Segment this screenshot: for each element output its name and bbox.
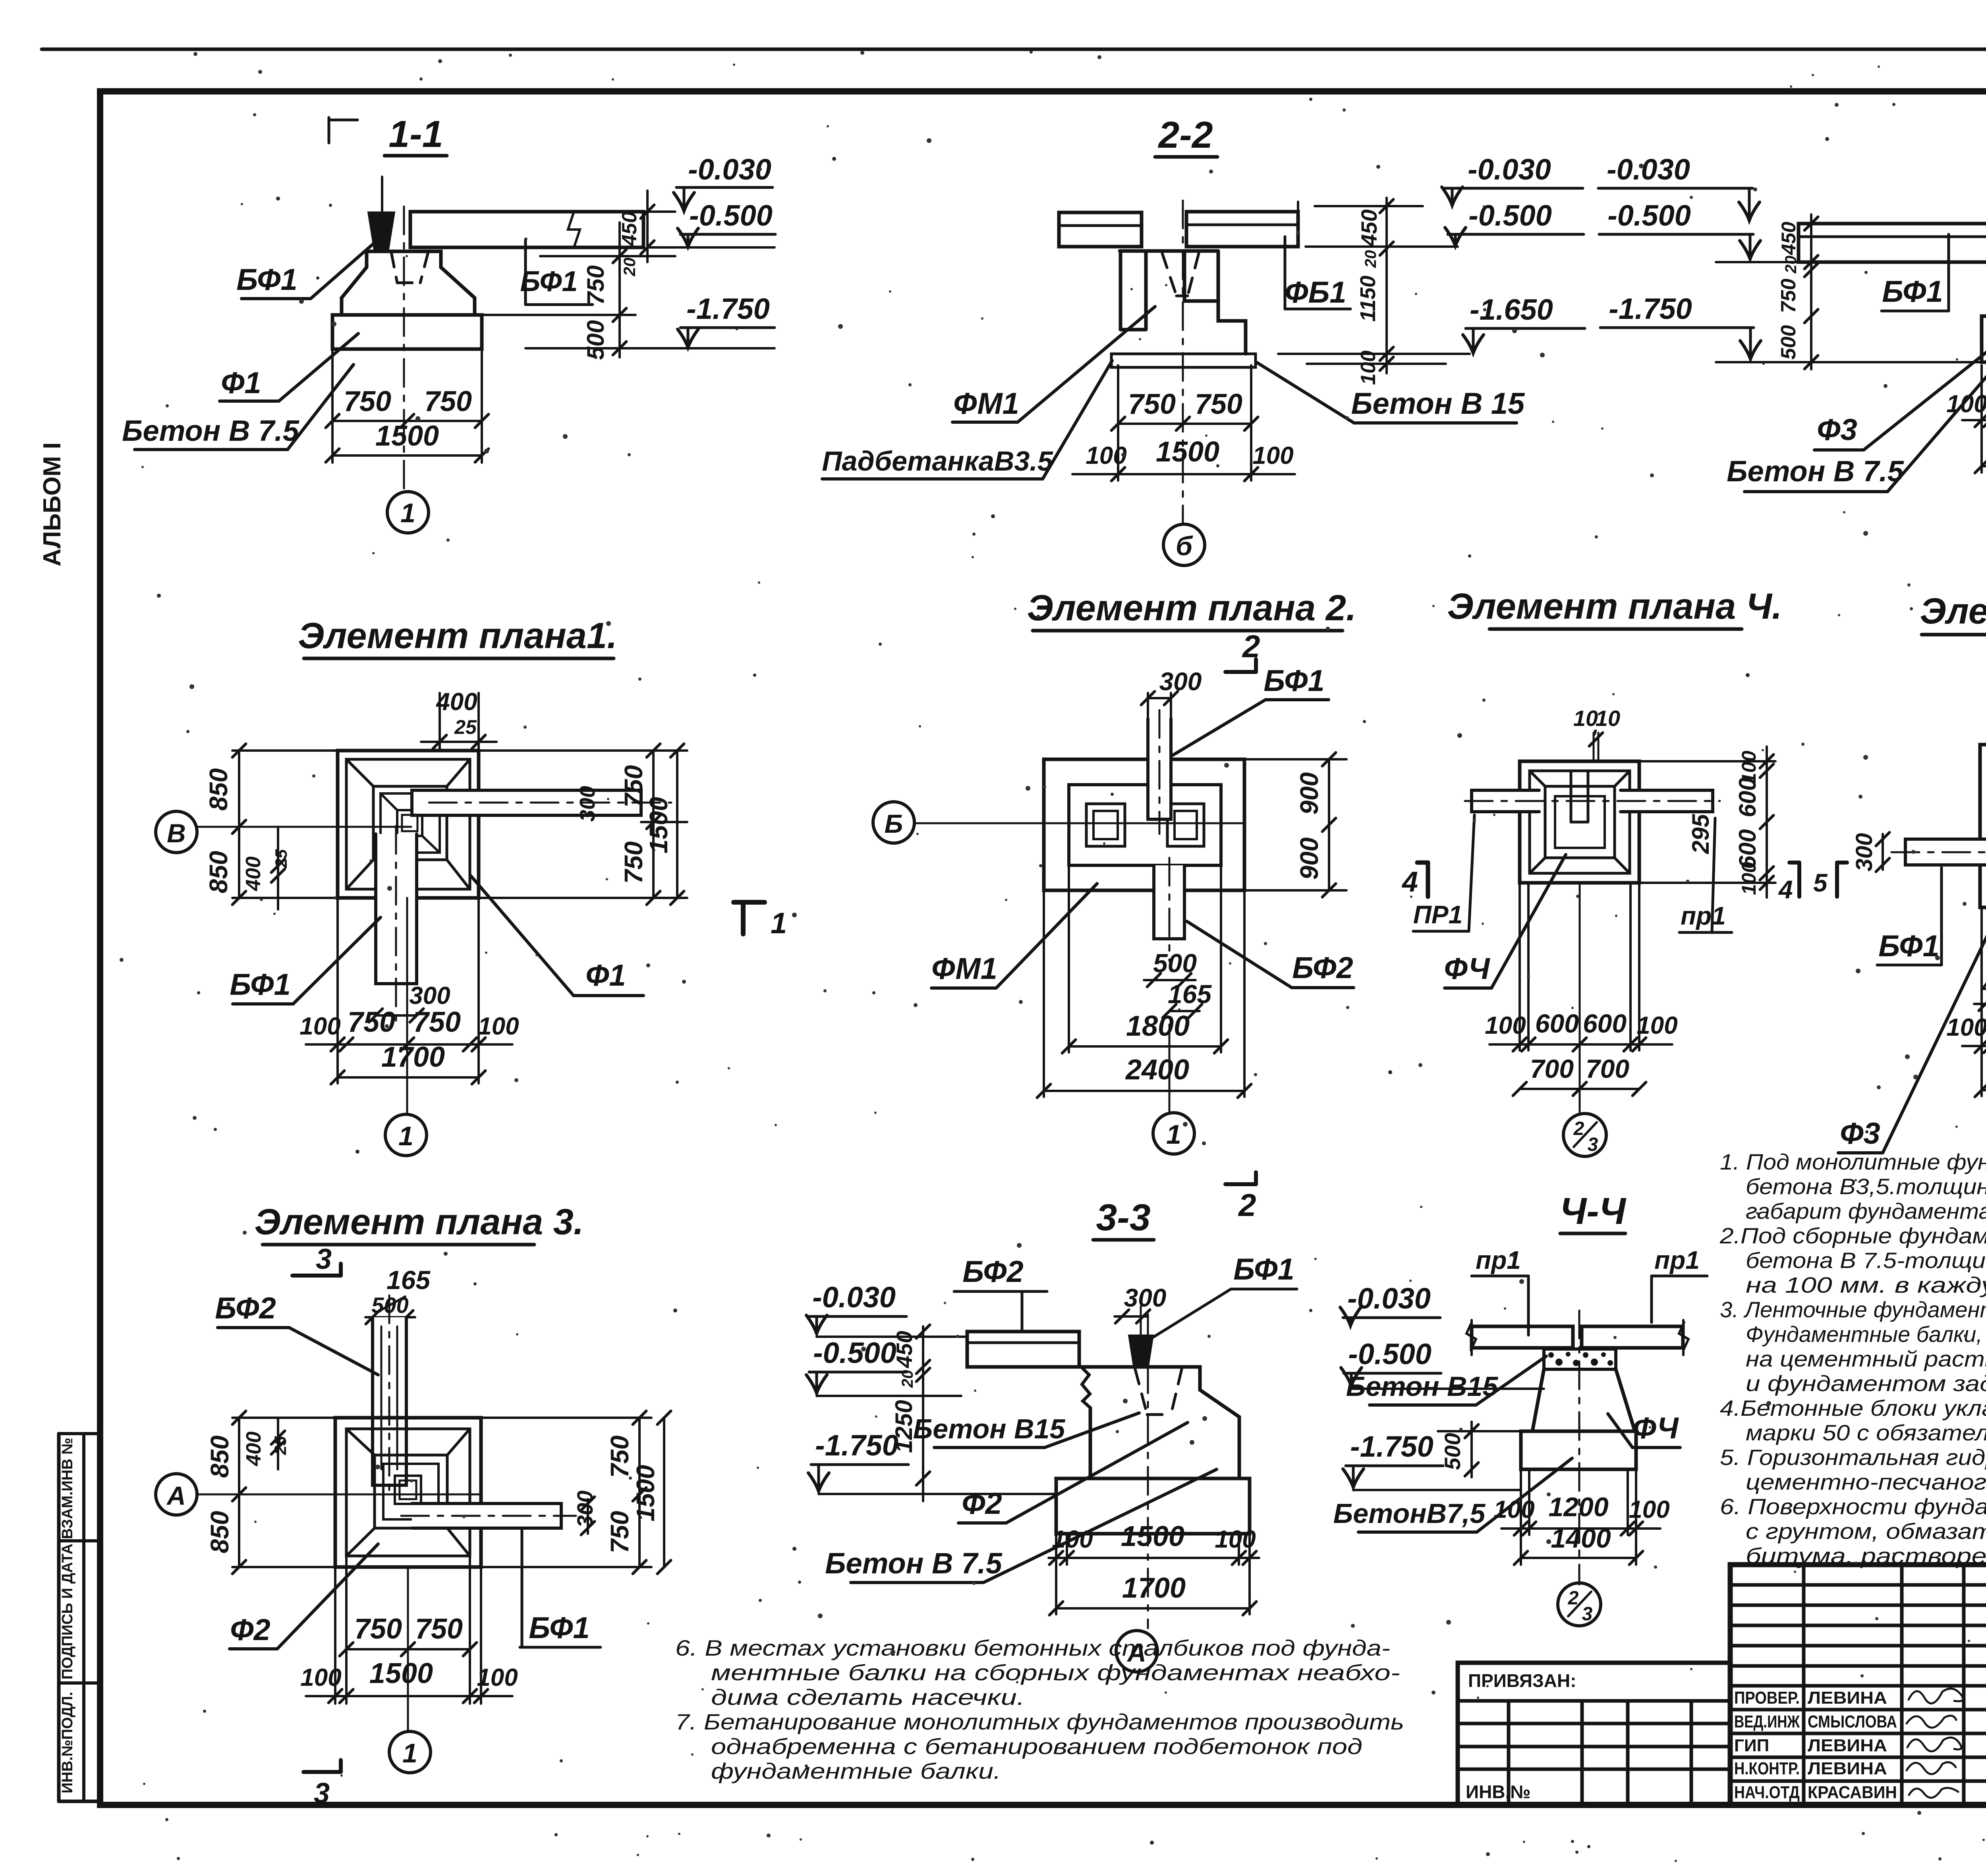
svg-text:300: 300 — [1159, 667, 1202, 696]
svg-text:ПадбетанкаВ3.5: ПадбетанкаВ3.5 — [822, 446, 1053, 477]
svg-text:-0.030: -0.030 — [1468, 153, 1551, 186]
svg-text:1-1: 1-1 — [388, 113, 443, 155]
svg-text:100: 100 — [1086, 442, 1126, 469]
svg-text:1700: 1700 — [381, 1041, 445, 1073]
svg-text:Ф2: Ф2 — [962, 1487, 1002, 1521]
svg-text:3. Ленточные фундаменты уложит: 3. Ленточные фундаменты уложить на песча… — [1720, 1297, 1986, 1322]
svg-text:БФ1: БФ1 — [520, 266, 578, 297]
svg-text:100: 100 — [1636, 1012, 1677, 1039]
svg-text:750: 750 — [1195, 388, 1242, 420]
svg-text:750: 750 — [1128, 388, 1176, 420]
svg-text:7. Бетанирование монолитных фу: 7. Бетанирование монолитных фундаментов … — [675, 1709, 1404, 1734]
svg-text:300: 300 — [409, 982, 450, 1009]
svg-text:Ф1: Ф1 — [221, 366, 261, 400]
svg-text:АЛЬБОМ I: АЛЬБОМ I — [39, 442, 66, 566]
svg-text:500: 500 — [1440, 1433, 1465, 1470]
svg-text:-0.500: -0.500 — [1348, 1338, 1432, 1370]
svg-text:Элемент плана Ч.: Элемент плана Ч. — [1447, 586, 1782, 627]
svg-text:ФМ1: ФМ1 — [931, 952, 997, 986]
svg-text:300: 300 — [576, 786, 599, 822]
svg-text:900: 900 — [1295, 772, 1323, 815]
svg-text:100: 100 — [1252, 442, 1293, 469]
svg-text:СМЫСЛОВА: СМЫСЛОВА — [1808, 1712, 1897, 1731]
svg-text:20: 20 — [899, 1370, 916, 1388]
svg-text:Н.КОНТР.: Н.КОНТР. — [1734, 1759, 1800, 1778]
svg-text:-1.750: -1.750 — [1350, 1430, 1433, 1463]
svg-text:5: 5 — [1813, 869, 1828, 897]
svg-text:750: 750 — [582, 265, 609, 305]
svg-text:ФЧ: ФЧ — [1632, 1411, 1679, 1445]
svg-text:бетона В3,5.толщиной 100мм, кр: бетона В3,5.толщиной 100мм, кроме оговор… — [1746, 1174, 1986, 1199]
svg-text:Бетон В 7.5: Бетон В 7.5 — [825, 1547, 1003, 1580]
svg-text:3: 3 — [1582, 1604, 1593, 1625]
svg-text:300: 300 — [1851, 833, 1877, 872]
svg-text:1: 1 — [402, 1738, 417, 1768]
svg-text:-0.500: -0.500 — [1468, 199, 1552, 232]
svg-text:750: 750 — [344, 386, 391, 417]
svg-text:100: 100 — [1357, 351, 1380, 385]
svg-text:-1.750: -1.750 — [1609, 292, 1692, 325]
svg-text:пр1: пр1 — [1476, 1246, 1521, 1274]
svg-text:1500: 1500 — [644, 797, 673, 853]
svg-text:бетона В 7.5-толщиной 500, пре: бетона В 7.5-толщиной 500, превышающая г… — [1746, 1248, 1986, 1273]
svg-text:КРАСАВИН: КРАСАВИН — [1808, 1783, 1897, 1802]
svg-text:6. В местах установки бетонных: 6. В местах установки бетонных сталбиков… — [675, 1635, 1390, 1660]
svg-text:ГИП: ГИП — [1734, 1736, 1769, 1755]
svg-text:ПРИВЯЗАН:: ПРИВЯЗАН: — [1468, 1670, 1576, 1691]
svg-text:Бетон В15: Бетон В15 — [1346, 1371, 1499, 1402]
svg-text:на цементный раствор марки 200: на цементный раствор марки 200. Зазоры м… — [1746, 1346, 1986, 1371]
svg-text:2-2: 2-2 — [1157, 114, 1213, 156]
svg-text:100: 100 — [1946, 1014, 1986, 1041]
svg-text:500: 500 — [582, 320, 609, 360]
svg-text:на 100 мм. в каждую сторону.: на 100 мм. в каждую сторону. — [1746, 1272, 1986, 1297]
svg-text:1: 1 — [400, 498, 415, 528]
svg-text:100: 100 — [300, 1664, 341, 1691]
svg-text:БФ1: БФ1 — [529, 1611, 589, 1645]
svg-text:Элемент плана1.: Элемент плана1. — [298, 616, 617, 656]
svg-text:700: 700 — [1530, 1054, 1574, 1083]
svg-text:Б: Б — [885, 809, 903, 838]
svg-text:-1.650: -1.650 — [1470, 293, 1553, 326]
svg-text:100: 100 — [1493, 1496, 1534, 1523]
svg-text:-0.030: -0.030 — [812, 1281, 896, 1314]
svg-text:100: 100 — [1485, 1012, 1526, 1039]
svg-text:100: 100 — [1738, 862, 1760, 895]
svg-text:пр1: пр1 — [1681, 901, 1726, 930]
svg-text:1. Под монолитные фундаменты в: 1. Под монолитные фундаменты выполнить б… — [1720, 1149, 1986, 1174]
svg-text:295: 295 — [1687, 813, 1714, 854]
svg-text:2400: 2400 — [1125, 1054, 1189, 1086]
svg-text:Ч-Ч: Ч-Ч — [1560, 1190, 1627, 1232]
svg-text:450: 450 — [1356, 209, 1381, 247]
svg-text:25: 25 — [454, 716, 477, 738]
svg-text:БФ2: БФ2 — [215, 1291, 276, 1325]
svg-text:б: б — [1176, 531, 1193, 561]
svg-text:БФ1: БФ1 — [1233, 1253, 1294, 1286]
svg-text:850: 850 — [205, 1511, 234, 1554]
svg-text:750: 750 — [605, 1436, 634, 1478]
svg-text:600: 600 — [1535, 1009, 1579, 1038]
svg-text:Элемент плана 2.: Элемент плана 2. — [1027, 588, 1356, 628]
svg-text:750: 750 — [619, 841, 648, 884]
svg-text:600: 600 — [1734, 778, 1761, 817]
svg-text:Бетон В 15: Бетон В 15 — [1351, 387, 1525, 421]
svg-text:Фундаментные балки, диафрагмы: Фундаментные балки, диафрагмы жесткости,… — [1746, 1322, 1986, 1347]
svg-text:450: 450 — [618, 212, 641, 247]
svg-text:750: 750 — [354, 1613, 402, 1645]
svg-text:Ф1: Ф1 — [585, 959, 626, 992]
svg-text:400: 400 — [435, 688, 477, 716]
svg-text:Элемент плана 5.: Элемент плана 5. — [1920, 591, 1986, 631]
svg-text:ЛЕВИНА: ЛЕВИНА — [1808, 1736, 1887, 1755]
svg-text:-0.500: -0.500 — [813, 1336, 896, 1369]
svg-text:1400: 1400 — [1551, 1523, 1611, 1554]
svg-text:ВЕД.ИНЖ: ВЕД.ИНЖ — [1734, 1712, 1800, 1731]
svg-text:400: 400 — [242, 857, 265, 892]
svg-text:Ф2: Ф2 — [230, 1613, 270, 1647]
svg-text:100: 100 — [477, 1664, 518, 1691]
svg-text:4: 4 — [1778, 875, 1793, 904]
svg-text:750: 750 — [605, 1511, 634, 1554]
svg-text:Ф3: Ф3 — [1817, 413, 1857, 447]
svg-text:ИНВ.№: ИНВ.№ — [1466, 1781, 1531, 1802]
svg-text:БФ1: БФ1 — [1882, 275, 1943, 309]
svg-text:ПРОВЕР.: ПРОВЕР. — [1734, 1688, 1800, 1708]
svg-text:однабременна с бетанированием: однабременна с бетанированием подбетонок… — [711, 1734, 1362, 1759]
svg-text:3-3: 3-3 — [1096, 1197, 1150, 1239]
svg-text:600: 600 — [1583, 1009, 1627, 1038]
svg-text:4.Бетонные блоки укладывать на: 4.Бетонные блоки укладывать на цементно-… — [1720, 1395, 1986, 1421]
svg-text:фундаментные балки.: фундаментные балки. — [711, 1758, 1001, 1783]
svg-text:450: 450 — [1777, 222, 1800, 255]
svg-text:-0.030: -0.030 — [1607, 153, 1690, 186]
svg-text:2: 2 — [1573, 1118, 1584, 1139]
svg-text:300: 300 — [1124, 1283, 1167, 1312]
svg-text:900: 900 — [1295, 838, 1323, 880]
svg-text:-1.750: -1.750 — [815, 1429, 898, 1462]
svg-text:габарит фундамента на 100 мм.: габарит фундамента на 100 мм. в каждую с… — [1746, 1199, 1986, 1224]
svg-text:1500: 1500 — [1156, 436, 1219, 468]
svg-text:ФЧ: ФЧ — [1444, 952, 1490, 986]
svg-text:2.Под сборные фундаменты устра: 2.Под сборные фундаменты устраивается бе… — [1719, 1223, 1986, 1248]
svg-text:20: 20 — [1362, 250, 1379, 268]
svg-text:25: 25 — [272, 849, 290, 868]
svg-text:1500: 1500 — [375, 420, 439, 452]
svg-text:Бетон В 7.5: Бетон В 7.5 — [122, 414, 300, 447]
svg-text:750: 750 — [619, 765, 648, 808]
svg-text:1500: 1500 — [1121, 1521, 1184, 1552]
svg-text:ФБ1: ФБ1 — [1285, 276, 1346, 309]
svg-text:В: В — [167, 818, 186, 848]
svg-text:Бетон В 7.5: Бетон В 7.5 — [1727, 455, 1905, 488]
svg-text:ментные балки на сборных фунда: ментные балки на сборных фундаментах неа… — [711, 1660, 1400, 1685]
svg-text:5. Горизонтальная гидроизоляци: 5. Горизонтальная гидроизоляция кирпичны… — [1720, 1445, 1986, 1470]
svg-text:750: 750 — [1777, 279, 1800, 313]
svg-text:ЛЕВИНА: ЛЕВИНА — [1808, 1759, 1887, 1778]
svg-text:БФ2: БФ2 — [962, 1255, 1023, 1289]
svg-text:3: 3 — [314, 1778, 330, 1809]
svg-text:100: 100 — [1052, 1526, 1093, 1553]
svg-text:3: 3 — [316, 1243, 332, 1275]
svg-text:ПР1: ПР1 — [1413, 900, 1462, 929]
svg-text:ИНВ.№ПОДЛ.: ИНВ.№ПОДЛ. — [59, 1692, 76, 1793]
svg-text:и фундаментом заделать бетоном: и фундаментом заделать бетоном В 15. — [1746, 1371, 1986, 1396]
svg-text:ФМ1: ФМ1 — [953, 387, 1019, 421]
svg-text:400: 400 — [242, 1432, 265, 1467]
svg-text:цементно-песчаного раствора со: цементно-песчаного раствора состава 1:2 … — [1746, 1469, 1986, 1494]
svg-text:-1.750: -1.750 — [686, 292, 770, 325]
svg-text:дима сделать насечки.: дима сделать насечки. — [711, 1685, 1025, 1710]
svg-text:-0.500: -0.500 — [1607, 199, 1691, 232]
svg-text:850: 850 — [204, 851, 233, 894]
svg-text:1700: 1700 — [1122, 1572, 1186, 1604]
svg-text:750: 750 — [424, 386, 472, 417]
svg-text:-0.500: -0.500 — [689, 199, 773, 232]
svg-text:750: 750 — [348, 1006, 395, 1038]
svg-text:3: 3 — [1588, 1134, 1598, 1155]
svg-text:с грунтом, обмазать двумя слоя: с грунтом, обмазать двумя слоями битума … — [1746, 1519, 1986, 1544]
svg-text:ПОДПИСЬ И ДАТА: ПОДПИСЬ И ДАТА — [59, 1544, 76, 1679]
svg-text:1150: 1150 — [1356, 276, 1380, 322]
svg-text:2: 2 — [1568, 1588, 1579, 1609]
svg-text:Ф3: Ф3 — [1840, 1117, 1880, 1150]
svg-text:Элемент плана 3.: Элемент плана 3. — [254, 1202, 583, 1242]
svg-text:1200: 1200 — [1548, 1492, 1608, 1522]
svg-text:100: 100 — [1629, 1496, 1669, 1523]
svg-text:1: 1 — [398, 1121, 413, 1151]
svg-text:20: 20 — [1782, 256, 1800, 274]
svg-text:ВЗАМ.ИНВ №: ВЗАМ.ИНВ № — [59, 1438, 76, 1539]
svg-text:пр1: пр1 — [1654, 1246, 1700, 1274]
svg-text:1: 1 — [1166, 1119, 1181, 1150]
svg-text:А: А — [166, 1481, 186, 1510]
svg-text:1800: 1800 — [1126, 1010, 1190, 1042]
svg-text:750: 750 — [415, 1613, 463, 1645]
svg-text:НАЧ.ОТД: НАЧ.ОТД — [1734, 1783, 1800, 1802]
svg-text:марки 50 с обязательной перевя: марки 50 с обязательной перевязкой не ме… — [1746, 1420, 1986, 1445]
svg-text:1: 1 — [771, 907, 787, 940]
svg-text:БФ1: БФ1 — [1878, 929, 1939, 963]
svg-text:100: 100 — [1215, 1526, 1256, 1553]
svg-text:6. Поверхности фундаментов и с: 6. Поверхности фундаментов и стен подвал… — [1720, 1494, 1986, 1519]
svg-text:1500: 1500 — [631, 1465, 660, 1521]
svg-text:БФ1: БФ1 — [1263, 664, 1324, 698]
svg-text:750: 750 — [413, 1006, 461, 1038]
svg-text:10: 10 — [1596, 706, 1620, 731]
svg-text:1500: 1500 — [369, 1658, 433, 1689]
svg-text:Бетон В15: Бетон В15 — [913, 1413, 1066, 1444]
svg-text:2: 2 — [1238, 1187, 1256, 1223]
svg-text:850: 850 — [205, 1436, 234, 1478]
svg-text:БФ2: БФ2 — [1292, 951, 1353, 985]
svg-text:700: 700 — [1586, 1054, 1629, 1083]
svg-text:100: 100 — [1946, 390, 1986, 418]
svg-text:20: 20 — [620, 258, 639, 277]
svg-text:850: 850 — [204, 768, 233, 811]
svg-text:БФ1: БФ1 — [236, 263, 297, 297]
svg-text:100: 100 — [299, 1013, 340, 1040]
svg-text:БФ1: БФ1 — [230, 968, 290, 1002]
svg-text:4: 4 — [1401, 866, 1418, 898]
svg-text:ЛЕВИНА: ЛЕВИНА — [1808, 1688, 1887, 1708]
svg-text:100: 100 — [478, 1013, 519, 1040]
svg-text:165: 165 — [386, 1265, 431, 1295]
svg-text:500: 500 — [1777, 325, 1800, 360]
svg-text:450: 450 — [892, 1331, 917, 1368]
svg-text:БетонВ7,5: БетонВ7,5 — [1333, 1498, 1486, 1529]
